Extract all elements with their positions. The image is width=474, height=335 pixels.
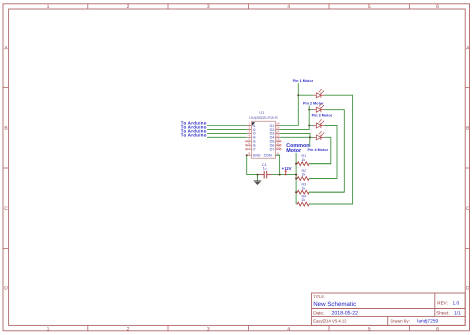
svg-text:4: 4 — [287, 4, 290, 10]
svg-text:O7: O7 — [270, 148, 275, 152]
LED D1 body — [316, 93, 321, 98]
wire To Arduino 2 — [207, 128, 247, 130]
LED D4 cathode lead — [321, 136, 325, 138]
svg-text:I7: I7 — [253, 148, 256, 152]
LED D1 cathode lead — [321, 94, 325, 96]
capacitor C1 left lead — [260, 174, 265, 176]
svg-text:U1: U1 — [259, 110, 265, 115]
junction rail +12V — [295, 174, 297, 176]
svg-text:TITLE:: TITLE: — [313, 294, 325, 299]
IC U1 left pin 3 (I3) — [247, 132, 252, 134]
IC U1 right pin 10 (O7) — [275, 148, 280, 150]
svg-text:EasyEDA V5.4.12: EasyEDA V5.4.12 — [313, 319, 347, 324]
wire O2 up to LED3 node — [280, 125, 309, 129]
svg-text:Pin 1 Motor: Pin 1 Motor — [293, 79, 314, 83]
IC U1 left pin 1 (I1) — [247, 125, 252, 127]
IC U1 pin1 marker — [252, 122, 255, 126]
junction LED3 anode — [308, 124, 310, 126]
LED D2 light arrows — [319, 104, 322, 107]
svg-text:10: 10 — [276, 145, 280, 149]
junction ground tap — [257, 174, 259, 176]
LED D1 light arrows — [319, 89, 322, 92]
LED D1 anode lead — [313, 94, 316, 96]
IC U1 right pin 13 (O4) — [275, 136, 280, 138]
junction GND pin — [246, 154, 248, 156]
wire R2 to corner — [309, 178, 337, 180]
svg-text:C: C — [466, 206, 470, 212]
svg-text:C: C — [4, 206, 8, 212]
svg-text:1u: 1u — [263, 167, 267, 171]
junction LED4 anode — [309, 136, 311, 138]
IC U1 right pin 12 (O5) — [275, 140, 280, 142]
frame row ticks right — [465, 86, 469, 88]
svg-text:Sheet:: Sheet: — [436, 310, 449, 315]
wire LED2 cathode to R3 — [309, 110, 344, 193]
resistor R3 zigzag — [296, 190, 309, 194]
IC U1 left pin 5 (I5) — [247, 140, 252, 142]
svg-text:New Schematic: New Schematic — [313, 301, 356, 308]
resistor R1 zigzag — [296, 162, 309, 166]
svg-text:+12V: +12V — [282, 166, 292, 171]
capacitor C1 right lead — [267, 174, 272, 176]
wire Pin 2 Motor stub — [308, 105, 310, 109]
IC U1 left pin 4 (I4) — [247, 136, 252, 138]
IC U1 GND pin 8 — [247, 154, 252, 156]
IC U1 left pin 7 (I7) — [247, 148, 252, 150]
wire LED2 node down to LED3 node — [308, 110, 310, 126]
svg-text:D: D — [4, 286, 8, 292]
IC U1 COM pin 9 — [275, 154, 280, 156]
LED D4 light arrows — [319, 132, 322, 135]
LED D3 anode lead — [313, 124, 316, 126]
LED D3 light arrows — [319, 120, 322, 123]
svg-text:Motor: Motor — [286, 148, 302, 154]
svg-text:To Arduino: To Arduino — [181, 132, 207, 137]
wire GND pin down and right — [247, 155, 260, 174]
wire To Arduino 4 — [207, 136, 247, 138]
LED D4 anode lead — [313, 136, 316, 138]
wire LED D1 anode — [298, 94, 313, 96]
LED D4 body — [316, 135, 321, 140]
svg-text:1/1: 1/1 — [454, 310, 461, 316]
IC U1 body — [252, 121, 276, 158]
ground symbol — [257, 175, 259, 181]
title block frame — [312, 293, 466, 325]
frame column ticks top — [87, 4, 89, 9]
wire R1 to corner — [309, 163, 331, 165]
svg-text:6: 6 — [436, 326, 439, 332]
IC U1 left pin 2 (I2) — [247, 128, 252, 130]
wire C1 to +12V to rail — [272, 174, 297, 176]
svg-text:2: 2 — [127, 4, 130, 10]
IC U1 right pin 11 (O6) — [275, 144, 280, 146]
frame row ticks left — [3, 86, 9, 88]
svg-text:Pin 2 Motor: Pin 2 Motor — [303, 102, 324, 106]
frame column ticks bottom — [87, 325, 89, 330]
wire COM pin down — [275, 155, 279, 174]
wire LED D2 anode — [309, 109, 313, 111]
resistor R4 zigzag — [296, 202, 309, 206]
svg-text:2: 2 — [127, 326, 130, 332]
svg-text:GND: GND — [253, 154, 261, 158]
wire To Arduino 3 — [207, 132, 247, 134]
wire LED D3 anode — [309, 124, 313, 126]
svg-text:Pin 3 Motor: Pin 3 Motor — [312, 114, 333, 118]
junction rail R1 — [295, 163, 297, 165]
svg-text:REV:: REV: — [437, 300, 448, 305]
svg-text:4: 4 — [287, 326, 290, 332]
LED D3 cathode lead — [321, 124, 325, 126]
IC U1 right pin 14 (O3) — [275, 132, 280, 134]
wire LED4 cathode to R1 — [309, 137, 331, 163]
wire R3 to corner — [309, 191, 344, 193]
svg-text:2018-05-22: 2018-05-22 — [332, 310, 359, 316]
wire O1 to LED1/Pin1Motor node — [280, 95, 298, 125]
junction LED1 anode — [297, 94, 299, 96]
svg-text:5: 5 — [368, 326, 371, 332]
wire LED3 cathode to R2 — [309, 125, 337, 178]
wire O3 down to LED4 node — [280, 133, 310, 137]
svg-text:3: 3 — [207, 326, 210, 332]
svg-text:ULN2003G-P16-R: ULN2003G-P16-R — [249, 116, 278, 120]
svg-text:COM: COM — [264, 154, 272, 158]
LED D2 cathode lead — [321, 109, 325, 111]
capacitor C1 plates — [263, 171, 265, 179]
svg-text:6: 6 — [436, 4, 439, 10]
resistor R2 zigzag — [296, 177, 309, 181]
svg-text:1: 1 — [47, 326, 50, 332]
IC U1 right pin 15 (O2) — [275, 128, 280, 130]
wire To Arduino 1 — [207, 125, 247, 127]
svg-text:5: 5 — [368, 4, 371, 10]
svg-text:Date:: Date: — [313, 310, 324, 315]
svg-text:3: 3 — [207, 4, 210, 10]
IC U1 left pin 6 (I6) — [247, 144, 252, 146]
wire Pin 1 Motor stub — [297, 83, 299, 95]
svg-text:D: D — [466, 286, 470, 292]
wire O4 to LED4 node — [280, 136, 310, 138]
svg-text:1: 1 — [47, 4, 50, 10]
svg-text:Pin 4 Motor: Pin 4 Motor — [308, 148, 329, 152]
wire LED D4 anode — [310, 136, 313, 138]
IC U1 right pin 16 (O1) — [275, 125, 280, 127]
LED D2 anode lead — [313, 109, 316, 111]
junction COM wire — [279, 174, 281, 176]
LED D3 body — [316, 123, 321, 128]
junction rail R2 — [295, 178, 297, 180]
wire Pin 4 Motor stub — [309, 138, 311, 147]
LED D2 body — [316, 107, 321, 112]
junction rail R3 — [295, 191, 297, 193]
wire common rail — [295, 153, 297, 204]
junction LED2 anode — [308, 109, 310, 111]
svg-text:1.0: 1.0 — [453, 300, 460, 306]
wire LED1 cathode to R4 — [309, 95, 353, 204]
svg-text:landj7259: landj7259 — [417, 319, 438, 325]
svg-text:Drawn By:: Drawn By: — [391, 319, 410, 324]
wire R4 to corner — [309, 203, 353, 205]
